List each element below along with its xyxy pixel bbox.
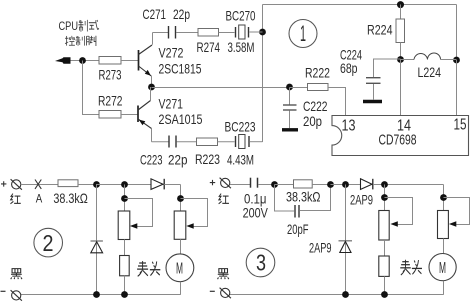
node: dot after 38.3k [327,181,334,188]
resistor 38.3k section 3 [275,180,331,205]
resistor R273 [99,57,139,83]
node circle 2 [34,228,63,257]
svg-text:68p: 68p [340,61,358,76]
transistor V271 (PNP 2SA1015) [138,87,203,142]
label: - terminal section 3 [210,290,215,292]
capacitor C224 68p with ground [340,47,401,101]
wire rail [96,184,151,186]
terminal: red + input section 3 [220,178,231,189]
terminal: red + input (circle with slash) [11,179,22,190]
potentiometer 1 section 2 [118,185,152,240]
wire [331,184,361,186]
svg-text:C271: C271 [143,7,167,22]
ceramic resonator BC270 3.58M [226,8,263,55]
label: CPU制式 控制脚 [59,19,99,46]
wire: pin 14 [400,59,402,116]
resistor R223 [195,138,235,167]
node: junction dot emitters [148,84,155,91]
svg-text:22p: 22p [168,152,188,167]
resistor R274 [197,29,235,56]
wire: bottom rail section 2 [21,294,181,296]
label: 黑 [11,269,22,280]
wire: top feedback row [153,32,169,34]
svg-text:CPU: CPU [59,19,79,33]
node: junction dot base node [79,57,86,64]
svg-text:BC270: BC270 [226,8,256,23]
wire with fuse X [21,180,58,206]
terminal: black - output section 3 [220,288,231,299]
wire: right vertical from top rail to IC pin 15 [456,5,458,116]
svg-text:15: 15 [454,117,467,134]
capacitor 20pF bypass [275,185,331,237]
inductor L224 [401,53,457,80]
svg-text:3.58M: 3.58M [228,40,255,55]
svg-text:4.43M: 4.43M [227,152,254,167]
label: 黑 section 3 [218,269,229,280]
svg-text:20pF: 20pF [287,222,309,237]
diode section 2 (horizontal) [151,179,181,190]
svg-text:2SA1015: 2SA1015 [159,112,203,127]
label: - terminal [1,290,6,292]
svg-text:L224: L224 [418,65,442,80]
svg-text:22p: 22p [173,7,190,22]
node: dot after diode [381,181,388,188]
wire [230,184,250,186]
ceramic resonator BC223 4.43M [225,119,263,167]
svg-text:200V: 200V [243,205,269,220]
svg-text:M: M [439,260,446,277]
svg-text:38.3kΩ: 38.3kΩ [53,191,88,206]
capacitor C223 22p [140,136,197,168]
node: dots bottom rail [93,291,100,298]
series resistor for meter section 2 [120,240,130,295]
node: dot [271,181,278,188]
diode 2AP9 horizontal [350,179,444,208]
svg-text:V272: V272 [159,46,184,61]
svg-text:2SC1815: 2SC1815 [159,61,202,76]
svg-text:3: 3 [256,250,266,276]
svg-text:R273: R273 [99,68,122,83]
node circle 3 [246,248,275,277]
wire: left vertical bus from top rail down to BC223 row [262,5,264,143]
svg-text:1: 1 [300,21,306,46]
potentiometer 1 section 3 [379,185,413,241]
wire: pin 15 [456,60,458,116]
svg-text:V271: V271 [159,96,184,111]
potentiometer 2 section 2 [174,185,207,240]
node: junction dot top rail / R224 [397,1,404,8]
series resistor for meter section 3 [379,240,389,295]
svg-text:R222: R222 [305,65,330,80]
svg-text:R223: R223 [195,152,220,167]
label: 红 section 3 [219,194,229,204]
IC CD7698 [332,116,469,156]
node: junction dot L224 right / pin15 [453,57,460,64]
node: dot [121,181,128,188]
potentiometer 2 section 3 [438,185,470,239]
meter M section 3 [429,239,456,295]
node circle 1 [289,20,317,48]
zener/diode vertical section 2 [91,185,103,295]
svg-text:2AP9: 2AP9 [350,193,373,208]
meter M section 2 [166,239,194,294]
label: 表头 section 2 [137,261,160,276]
svg-text:BC223: BC223 [225,119,256,134]
svg-text:0.1μ: 0.1μ [244,192,267,207]
capacitor 0.1u 200V [243,178,275,221]
label: 红 [10,194,20,204]
node: dot at vertical diode [342,181,349,188]
label: 表头 section 3 [400,260,422,275]
svg-text:2: 2 [43,230,54,256]
transistor V272 (NPN 2SC1815) [139,33,202,88]
node: dot [93,181,100,188]
wire: vertical from base node to R272 [83,61,100,115]
node: dots bottom rail section 3 [342,291,349,298]
resistor R222 [290,65,346,115]
svg-text:CD7698: CD7698 [379,132,417,149]
node: junction dot at C222 [286,84,293,91]
wire: emitter node to C222/R222 node [152,87,290,89]
capacitor C271 22p [143,7,199,39]
terminal: black - output section 2 [11,290,22,301]
svg-text:20p: 20p [303,114,322,129]
wire: top supply rail of section 1 [263,4,457,6]
resistor R224 [367,5,405,60]
svg-text:M: M [176,261,183,278]
svg-text:2AP9: 2AP9 [309,240,332,255]
wire: bottom rail section 3 [230,294,444,296]
node: junction dot BC270 output [259,29,266,36]
svg-text:R272: R272 [98,94,123,109]
resistor 38.3k section 2 [53,180,96,206]
capacitor C222 20p with ground [282,88,328,130]
diode 2AP9 vertical [309,185,352,295]
svg-text:R224: R224 [367,23,393,38]
svg-text:38.3kΩ: 38.3kΩ [286,190,321,205]
node: junction dot pin14/L224 [397,56,404,63]
label: + terminal section 3 [210,180,215,185]
wire: CPU control pin lead with arrow [70,60,99,62]
resistor R272 [98,94,138,119]
label: + terminal [1,181,6,186]
wire: bottom feedback row [152,141,169,143]
svg-text:13: 13 [342,117,356,134]
svg-text:C222: C222 [303,99,328,114]
svg-text:C223: C223 [140,152,163,167]
svg-text:A: A [36,191,43,205]
svg-text:R274: R274 [197,40,221,55]
